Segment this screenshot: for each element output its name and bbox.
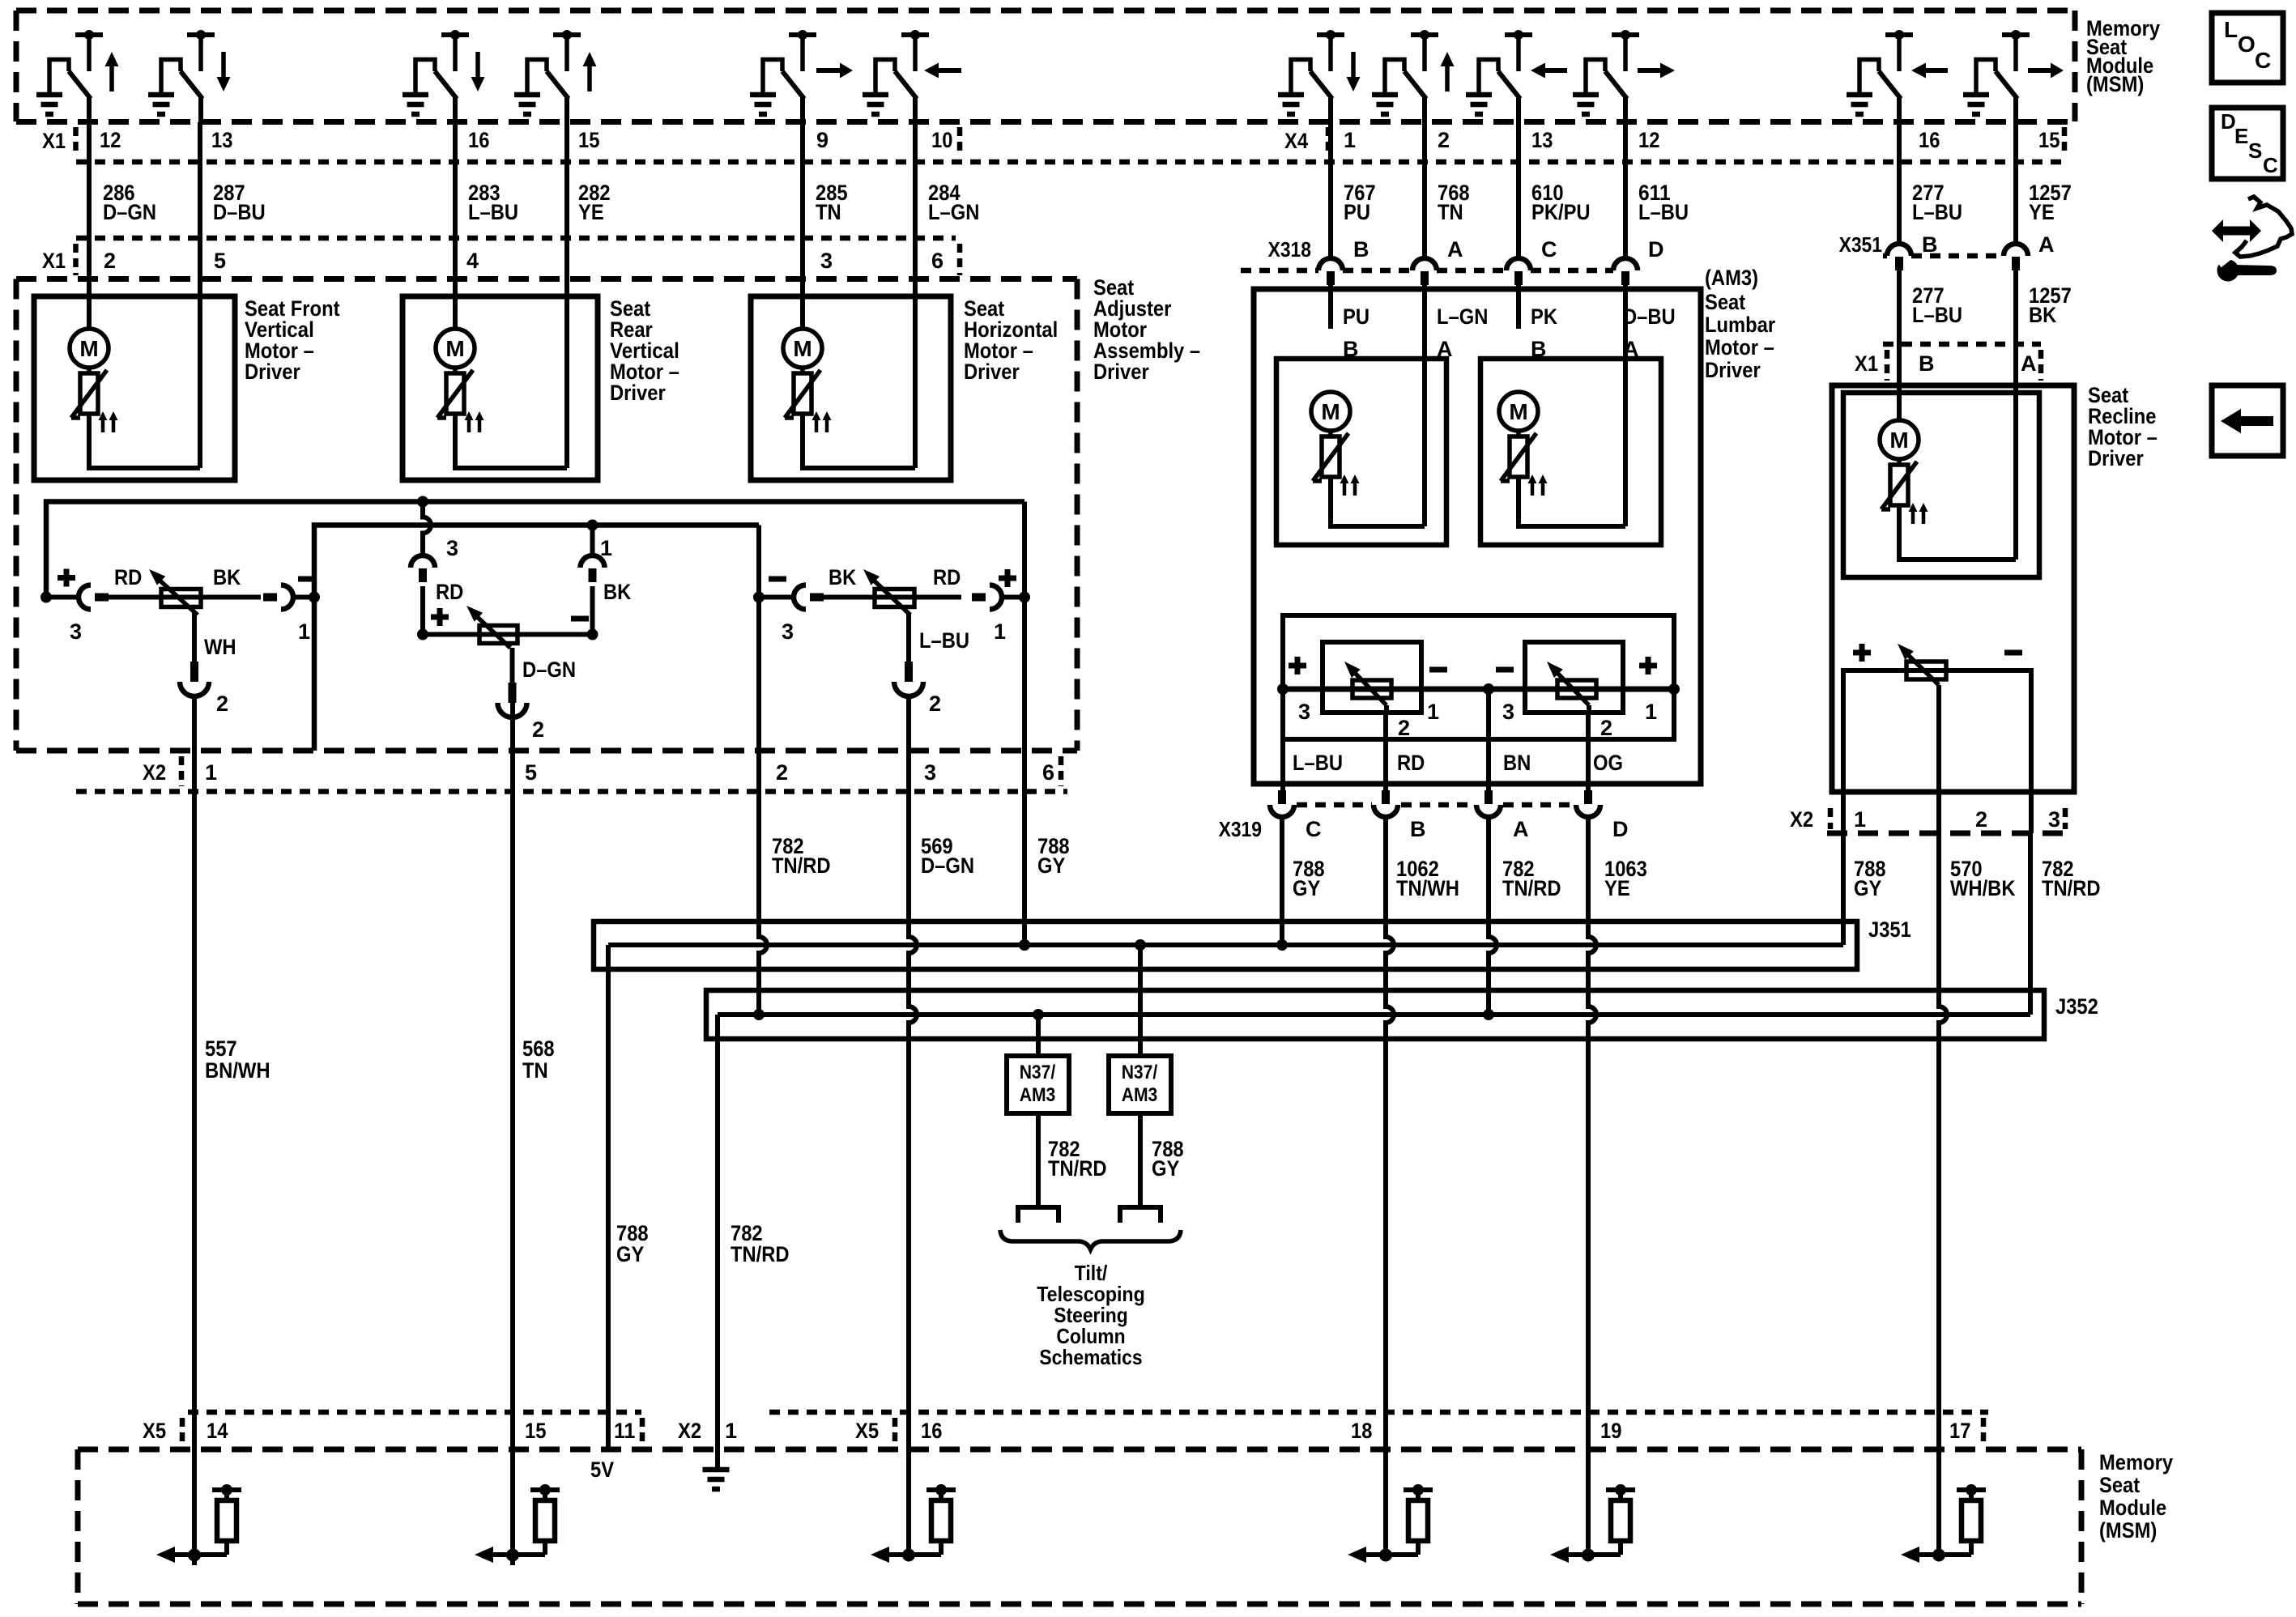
svg-text:BK: BK: [829, 565, 857, 589]
resistor term 18: [1348, 1484, 1433, 1563]
connector row X1 motor dotted top: [76, 236, 956, 241]
wire BN lumbar: [1486, 689, 1491, 790]
svg-text:2: 2: [1438, 128, 1450, 152]
pin numbers X1 top row: [100, 128, 952, 152]
svg-text:X1: X1: [1855, 351, 1878, 376]
switch lumbar up: [1372, 30, 1455, 122]
resistor term 19: [1550, 1484, 1635, 1563]
wire 1062 TN/WH X319-B to X5-18: [1386, 817, 1394, 1413]
svg-text:TN/WH: TN/WH: [1396, 876, 1459, 900]
wire 569->X5-16 lower: [906, 1413, 911, 1555]
svg-text:5: 5: [214, 249, 226, 273]
svg-text:RD: RD: [436, 580, 463, 604]
wires X351 to recline X1: [1897, 270, 1902, 385]
svg-text:J351: J351: [1868, 917, 1911, 942]
svg-text:GY: GY: [1152, 1156, 1179, 1181]
wire pin6 788 GY vertical: [1022, 502, 1027, 946]
wire 286 D-GN: [87, 122, 92, 329]
svg-text:GY: GY: [616, 1242, 644, 1266]
switch lumbar down: [1278, 30, 1361, 122]
connector row X1 recline: [1883, 342, 2041, 347]
svg-text:9: 9: [816, 128, 829, 152]
Memory Seat Module (MSM) top dashed box: [16, 8, 2075, 14]
sensor rail 2: [314, 526, 759, 751]
svg-text:12: 12: [100, 128, 121, 152]
svg-text:GY: GY: [1293, 876, 1320, 900]
wire labels under X2 adjuster: [205, 834, 1070, 1083]
svg-text:D–GN: D–GN: [921, 853, 974, 878]
pot3 labels: [769, 565, 1016, 716]
svg-text:L–BU: L–BU: [1912, 303, 1962, 327]
svg-text:C: C: [2255, 48, 2271, 73]
motor M seat front vertical: [70, 329, 118, 432]
wire labels top row: [103, 181, 2072, 224]
bottom MSM dashed box: [78, 1447, 2081, 1453]
svg-text:L–GN: L–GN: [1437, 304, 1488, 329]
svg-text:D: D: [2221, 109, 2236, 134]
wire 568 TN upper: [510, 717, 515, 1555]
wire pin3 569 D-GN vertical: [909, 696, 917, 1413]
svg-text:X2: X2: [143, 760, 166, 785]
motor U wire 2: [455, 414, 567, 468]
svg-text:1: 1: [994, 619, 1006, 644]
svg-text:A: A: [2038, 232, 2055, 257]
lumbar pot2 wiper wire: [1587, 705, 1591, 713]
switch lumbar forward: [1573, 30, 1675, 122]
wire 284 L-GN: [913, 122, 918, 468]
wire 788 GY X319-C to J351: [1280, 817, 1284, 945]
wire 568 TN lower: [510, 702, 515, 1565]
svg-text:D–GN: D–GN: [522, 657, 576, 682]
svg-text:3: 3: [1298, 700, 1310, 724]
svg-text:N37/: N37/: [1020, 1062, 1056, 1083]
splice J351 middle wire 788 GY: [608, 943, 1843, 947]
wire RD lumbar: [1383, 713, 1388, 790]
wire 782 TN/RD to steering column: [1036, 1113, 1041, 1207]
svg-text:TN: TN: [1438, 200, 1463, 224]
svg-text:Driver: Driver: [1093, 360, 1149, 384]
svg-text:19: 19: [1600, 1419, 1621, 1443]
svg-text:TN/RD: TN/RD: [2042, 876, 2101, 900]
svg-text:TN/RD: TN/RD: [1502, 876, 1561, 900]
svg-text:WH/BK: WH/BK: [1950, 876, 2016, 900]
svg-text:3: 3: [70, 619, 82, 644]
svg-text:13: 13: [1531, 128, 1553, 152]
svg-text:GY: GY: [1854, 876, 1881, 900]
motor U wire 1: [89, 414, 200, 468]
potentiometer seat recline: [1898, 644, 1946, 685]
brace to steering column schematics: [1000, 1230, 1181, 1249]
svg-text:1: 1: [205, 760, 217, 785]
wire 782 TN/RD recline down: [2029, 794, 2034, 833]
adjust icon double arrow with wrench: [2212, 197, 2292, 282]
lumbar pot track: [1283, 687, 1674, 692]
lumbar pot outer rect: [1283, 615, 1674, 739]
splice J352 middle wire 782 TN/RD: [718, 1012, 2030, 1017]
MSM top label: [2086, 16, 2160, 96]
svg-text:L–BU: L–BU: [468, 200, 518, 224]
pot2 labels: [431, 536, 632, 742]
resistor term 17: [1901, 1484, 1986, 1563]
wire 287 D-BU: [198, 122, 202, 468]
Seat Rear Vertical Motor label: [610, 296, 679, 405]
potentiometer lumbar 2: [1547, 662, 1596, 705]
connector box N37/AM3 left: [1036, 1015, 1041, 1056]
pot1 labels: [58, 565, 316, 716]
wire 282 YE: [564, 122, 569, 468]
svg-text:13: 13: [211, 128, 232, 152]
svg-text:E: E: [2234, 124, 2248, 148]
svg-text:X319: X319: [1219, 817, 1262, 841]
motor M seat rear vertical: [436, 329, 484, 432]
svg-text:5: 5: [525, 760, 537, 785]
pot2 terminal 1 feed from rail2: [590, 526, 595, 556]
svg-text:10: 10: [931, 128, 952, 152]
svg-text:Lumbar: Lumbar: [1705, 313, 1776, 337]
svg-text:L–BU: L–BU: [1293, 751, 1343, 775]
pin numbers X1 motor row: [104, 249, 944, 273]
svg-text:B: B: [1922, 232, 1938, 257]
resistor term 16: [871, 1484, 956, 1563]
svg-text:3: 3: [782, 619, 794, 644]
Seat Front Vertical Motor box: [34, 296, 235, 480]
svg-text:YE: YE: [1604, 876, 1630, 900]
lumbar motor1 U wire: [1331, 477, 1425, 526]
svg-text:15: 15: [2038, 128, 2060, 152]
wires into recline sub box: [1897, 385, 1902, 420]
lumbar pot element box 2: [1525, 642, 1623, 713]
svg-text:BN/WH: BN/WH: [205, 1058, 270, 1083]
switch seat rear vertical up: [514, 30, 597, 122]
svg-text:YE: YE: [2029, 200, 2055, 224]
svg-text:1: 1: [1645, 700, 1657, 724]
svg-text:3: 3: [924, 760, 936, 785]
svg-text:B: B: [1919, 351, 1935, 376]
svg-text:PK: PK: [1531, 304, 1557, 329]
wire pin2 782 TN/RD vertical: [759, 526, 767, 1015]
wire L-BU lumbar: [1280, 739, 1285, 790]
svg-text:RD: RD: [114, 565, 142, 589]
Seat Adjuster Motor Assembly dashed box: [16, 276, 1077, 282]
DESC icon box: [2212, 108, 2283, 179]
svg-text:PK/PU: PK/PU: [1531, 200, 1591, 224]
lumbar motor2 U wire: [1519, 477, 1625, 526]
wire 557 BN/WH upper: [192, 696, 197, 1555]
Seat Rear Vertical Motor box: [403, 296, 598, 480]
svg-text:6: 6: [1042, 760, 1054, 785]
svg-text:3: 3: [446, 536, 458, 560]
switch recline forward: [1963, 30, 2064, 122]
lumbar wires into sub boxes: [1328, 291, 1333, 329]
recline pot track: [1843, 670, 2031, 794]
svg-text:2: 2: [532, 717, 544, 742]
svg-text:RD: RD: [933, 565, 961, 589]
switch seat horizontal rearward: [863, 30, 961, 122]
svg-text:C: C: [1541, 237, 1557, 262]
pin letters X318: [1353, 237, 1664, 262]
svg-text:C: C: [1306, 817, 1322, 841]
svg-text:15: 15: [578, 128, 599, 152]
svg-text:557: 557: [205, 1036, 237, 1061]
svg-text:D–GN: D–GN: [103, 200, 156, 224]
wire 1063->X5-19 lower: [1586, 1413, 1591, 1555]
svg-text:Memory: Memory: [2099, 1450, 2173, 1474]
svg-text:RD: RD: [1397, 751, 1425, 775]
svg-text:16: 16: [921, 1419, 942, 1443]
svg-text:L–BU: L–BU: [1638, 200, 1689, 224]
svg-text:6: 6: [931, 249, 944, 273]
potentiometer lumbar 1: [1344, 662, 1391, 705]
connector row X2 recline: [1827, 831, 2068, 836]
svg-text:M: M: [1509, 399, 1527, 424]
svg-text:Driver: Driver: [245, 360, 300, 384]
switch seat front vertical up: [36, 30, 119, 122]
ground X2-1 bottom: [703, 1467, 730, 1473]
potentiometer seat front vertical: [149, 569, 201, 615]
svg-text:BK: BK: [213, 565, 241, 589]
pot2 track: [423, 632, 593, 637]
svg-text:1: 1: [298, 619, 310, 644]
motor U wire 3: [803, 414, 915, 468]
sensor supply rail 1: [46, 502, 1024, 598]
connector row X5 dotted: [188, 1410, 641, 1415]
wire 570->X5-17 lower: [1936, 1413, 1941, 1555]
svg-text:Driver: Driver: [964, 360, 1020, 384]
svg-text:4: 4: [466, 249, 479, 273]
svg-text:GY: GY: [1037, 853, 1065, 878]
connector box N37/AM3 right: [1138, 945, 1143, 1056]
svg-text:J352: J352: [2055, 994, 2098, 1019]
Tilt/Telescoping Steering Column Schematics label: [1037, 1261, 1145, 1369]
svg-text:X351: X351: [1839, 232, 1882, 257]
svg-text:X2: X2: [678, 1419, 701, 1443]
svg-text:S: S: [2248, 138, 2262, 163]
svg-text:TN/RD: TN/RD: [731, 1242, 790, 1266]
svg-text:2: 2: [1398, 716, 1410, 740]
Seat Horizontal Motor box: [751, 296, 951, 480]
Seat Recline Motor box: [1832, 385, 2074, 792]
svg-text:A: A: [1447, 237, 1463, 262]
svg-text:Driver: Driver: [610, 381, 666, 405]
wires from X4 switches to X318: [1328, 122, 1333, 257]
svg-text:Driver: Driver: [2088, 446, 2144, 470]
svg-text:Seat: Seat: [2099, 1473, 2140, 1497]
wire 283 L-BU: [453, 122, 458, 329]
svg-text:1: 1: [725, 1419, 737, 1443]
svg-text:A: A: [1513, 817, 1529, 841]
svg-text:BK: BK: [2029, 303, 2057, 327]
motor M recline: [1880, 420, 1928, 524]
svg-text:2: 2: [1600, 716, 1612, 740]
recline pot labels: [1853, 644, 2022, 662]
svg-text:OG: OG: [1593, 751, 1623, 775]
svg-text:15: 15: [525, 1419, 546, 1443]
svg-text:Driver: Driver: [1705, 358, 1761, 382]
lumbar motor sub box 2: [1480, 359, 1661, 545]
svg-text:2: 2: [104, 249, 116, 273]
resistor term 15: [475, 1484, 560, 1563]
lumbar pot labels: [1289, 657, 1657, 775]
svg-text:D: D: [1648, 237, 1664, 262]
svg-text:M: M: [1889, 428, 1908, 453]
svg-text:Seat: Seat: [1705, 290, 1745, 314]
svg-text:YE: YE: [578, 200, 604, 224]
connector row X2 adjuster: [16, 748, 1077, 754]
svg-text:X318: X318: [1268, 237, 1311, 262]
pin letters X319: [1306, 817, 1629, 841]
svg-text:X5: X5: [855, 1419, 879, 1443]
svg-text:TN: TN: [816, 200, 841, 224]
svg-text:1: 1: [1344, 128, 1356, 152]
splice J351 racetrack: [594, 921, 1857, 969]
svg-text:16: 16: [1919, 128, 1940, 152]
svg-text:L–GN: L–GN: [928, 200, 979, 224]
wire labels 788 GY / 782 TN/RD lower: [616, 1221, 790, 1266]
resistor term 14: [156, 1484, 241, 1563]
wire 557 BN/WH lower: [192, 702, 197, 1565]
wire labels 277 L-BU / 1257 BK: [1912, 283, 2072, 327]
svg-text:(AM3): (AM3): [1705, 266, 1758, 290]
svg-text:PU: PU: [1343, 304, 1370, 329]
svg-text:17: 17: [1949, 1419, 1970, 1443]
lumbar pot1 wiper wire: [1384, 705, 1389, 713]
wire OG lumbar: [1586, 713, 1591, 790]
wire labels X319: [1293, 857, 1647, 900]
svg-text:TN/RD: TN/RD: [772, 853, 831, 878]
svg-text:AM3: AM3: [1122, 1084, 1158, 1106]
recline pot wiper wire: [1936, 685, 1941, 833]
svg-text:12: 12: [1638, 128, 1659, 152]
wires from recline switches to X351: [1897, 122, 1902, 242]
svg-text:3: 3: [1502, 700, 1514, 724]
svg-text:M: M: [1321, 399, 1340, 424]
motor M lumbar 1: [1311, 392, 1360, 496]
svg-text:2: 2: [929, 691, 941, 716]
wire 1063 YE X319-D to X5-19: [1588, 817, 1596, 1413]
svg-text:2: 2: [1975, 807, 1987, 832]
back arrow icon box: [2212, 385, 2283, 456]
svg-text:16: 16: [468, 128, 489, 152]
svg-text:(MSM): (MSM): [2099, 1518, 2157, 1543]
bottom MSM label: [2099, 1450, 2173, 1543]
svg-text:TN/RD: TN/RD: [1048, 1156, 1107, 1181]
wire 285 TN: [800, 122, 805, 329]
lumbar pot element box 1: [1323, 642, 1421, 713]
svg-text:BK: BK: [603, 580, 632, 604]
svg-text:B: B: [1410, 817, 1426, 841]
switch lumbar rearward: [1466, 30, 1567, 122]
potentiometer seat horizontal: [863, 569, 914, 615]
pot3 track with terminals: [759, 595, 794, 600]
pot1 track with terminals: [46, 595, 79, 600]
recline motor U wire: [1899, 505, 2016, 560]
lumbar internal wire labels: [1343, 304, 1676, 361]
svg-text:1: 1: [600, 536, 612, 560]
svg-text:2: 2: [776, 760, 788, 785]
wire 782 TN/RD recline to J352: [2028, 833, 2033, 1015]
pot2 wiper wire: [510, 648, 515, 683]
svg-text:AM3: AM3: [1020, 1084, 1056, 1106]
svg-text:3: 3: [820, 249, 833, 273]
wire 782 TN/RD X319-A to J352: [1489, 817, 1497, 1015]
recline motor sub box: [1843, 393, 2039, 577]
svg-text:L: L: [2224, 17, 2238, 42]
LOC icon box: [2212, 13, 2283, 83]
svg-text:18: 18: [1351, 1419, 1372, 1443]
switch seat rear vertical down: [403, 30, 485, 122]
pin numbers X4 row: [1344, 128, 2060, 152]
svg-text:M: M: [445, 336, 464, 361]
Seat Horizontal Motor label: [964, 296, 1058, 384]
wire 788 GY to X5-11: [606, 945, 611, 1449]
(AM3) Seat Lumbar Motor label: [1705, 266, 1776, 382]
svg-text:M: M: [79, 336, 98, 361]
switch seat front vertical down: [148, 30, 231, 122]
svg-text:(MSM): (MSM): [2086, 72, 2144, 96]
svg-text:14: 14: [207, 1419, 228, 1443]
svg-text:Schematics: Schematics: [1039, 1345, 1142, 1369]
svg-text:X2: X2: [1790, 807, 1813, 832]
splice J352 racetrack: [706, 990, 2044, 1039]
connector row X1 dotted bottom: [76, 160, 2065, 165]
X5 row labels: [143, 1419, 1970, 1443]
Seat Front Vertical Motor label: [245, 296, 340, 384]
svg-text:X4: X4: [1284, 129, 1308, 153]
svg-text:1: 1: [1854, 807, 1866, 832]
svg-text:11: 11: [614, 1419, 635, 1443]
switch recline rearward: [1847, 30, 1948, 122]
svg-text:O: O: [2238, 32, 2256, 57]
svg-text:X5: X5: [143, 1419, 166, 1443]
svg-text:TN: TN: [522, 1058, 548, 1083]
svg-text:3: 3: [2048, 807, 2060, 832]
motor M seat horizontal: [783, 329, 832, 432]
svg-text:N37/: N37/: [1122, 1062, 1158, 1083]
svg-text:M: M: [793, 336, 811, 361]
pot3 wiper wire: [906, 613, 911, 662]
svg-text:D: D: [1612, 817, 1629, 841]
svg-text:2: 2: [216, 691, 228, 716]
svg-text:B: B: [1353, 237, 1370, 262]
potentiometer seat rear vertical: [466, 606, 518, 648]
Seat Adjuster label: [1093, 275, 1200, 384]
svg-text:C: C: [2263, 153, 2278, 177]
wire 788 GY recline down: [1841, 794, 1846, 833]
svg-text:WH: WH: [204, 635, 236, 659]
wire 788 GY to steering column: [1138, 1113, 1143, 1207]
wire 782 TN/RD to X2-1 ground: [715, 1015, 720, 1470]
wire 788 GY recline to J351: [1841, 833, 1846, 945]
pot1 wiper wire to pin 2: [192, 613, 197, 662]
svg-text:Motor –: Motor –: [1705, 335, 1774, 360]
lumbar motor sub box 1: [1276, 359, 1446, 545]
Seat Recline Motor label: [2088, 383, 2158, 470]
wire 570 WH/BK recline to X5-17: [1938, 831, 1943, 836]
switch seat horizontal forward: [750, 30, 853, 122]
labels 782 TN/RD and 788 GY at N37: [1048, 1137, 1184, 1181]
wire labels recline X2: [1854, 857, 2101, 900]
svg-text:Module: Module: [2099, 1496, 2166, 1520]
svg-text:1: 1: [1427, 700, 1439, 724]
svg-text:A: A: [2021, 351, 2037, 376]
pot2 vertical feed from rail1: [423, 502, 431, 556]
svg-text:L–BU: L–BU: [919, 628, 969, 653]
svg-text:568: 568: [522, 1036, 555, 1061]
svg-text:X1: X1: [42, 249, 66, 273]
svg-text:BN: BN: [1503, 751, 1531, 775]
svg-text:X1: X1: [42, 129, 66, 153]
Seat Lumbar Motor box: [1254, 289, 1701, 784]
